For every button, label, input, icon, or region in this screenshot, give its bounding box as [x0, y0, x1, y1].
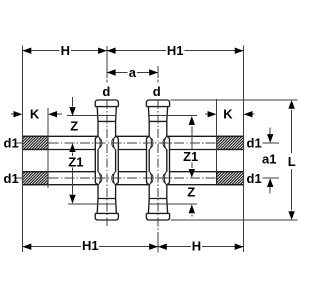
svg-text:K: K [223, 107, 233, 122]
top socket bead [146, 100, 169, 107]
K left arrows (outside) [14, 111, 23, 117]
dimension line H top [23, 50, 107, 52]
bottom socket bead [95, 213, 118, 220]
svg-text:a: a [129, 65, 137, 80]
svg-text:Z1: Z1 [68, 154, 83, 169]
stop plane extension top [67, 115, 116, 117]
cross housing barrel outline [147, 137, 150, 185]
svg-text:H: H [192, 239, 201, 254]
walls above pipe1 [149, 121, 167, 136]
svg-text:d1: d1 [4, 135, 19, 150]
extension line right face [243, 46, 245, 252]
top socket shoulder line [149, 120, 167, 122]
Z right bottom up arrow [189, 204, 195, 213]
bottom socket taper walls [148, 199, 167, 214]
walls below pipe2 [149, 185, 167, 199]
svg-text:a1: a1 [262, 151, 276, 166]
inserted pipe hatch, pipe2 left [10, 172, 59, 185]
Z/Z1 right column line [191, 126, 193, 216]
K right dim tails [205, 113, 255, 115]
walls above pipe1 [98, 121, 116, 136]
top socket shoulder line [98, 120, 116, 122]
svg-text:d1: d1 [247, 171, 262, 186]
vertical centerline pipe 2 [157, 66, 159, 78]
L reference lines [171, 100, 298, 220]
svg-text:H1: H1 [82, 238, 99, 253]
extension line K left inner [47, 108, 49, 188]
horizontal axis pipe 2 [16, 177, 23, 179]
svg-text:H1: H1 [167, 43, 184, 58]
Z1 left bottom down arrow [69, 195, 75, 204]
svg-text:d1: d1 [247, 135, 262, 150]
svg-text:d: d [102, 84, 110, 99]
svg-text:d: d [153, 84, 161, 99]
svg-text:H: H [61, 43, 70, 58]
svg-text:Z: Z [70, 118, 78, 133]
dimension line H1 top [107, 50, 244, 52]
Z1 right down arrow at axis2 [189, 169, 195, 178]
vertical pipe 1 body (cx=106.8) [95, 100, 118, 220]
inserted pipe hatch, pipe1 right [203, 136, 255, 149]
top socket taper walls [97, 107, 116, 122]
bottom socket shoulder line [98, 198, 116, 200]
svg-text:d1: d1 [4, 171, 19, 186]
Z left / Z1 left up arrow [69, 143, 75, 152]
K left dim tails [11, 113, 62, 115]
Z left down arrow [69, 107, 75, 116]
horizontal pipe 1 outline [23, 136, 244, 149]
vertical pipe 2 body (cx=158.0) [146, 100, 169, 220]
L top up arrow [288, 100, 294, 109]
dimension line a [107, 72, 158, 74]
horizontal axis pipe 1 [16, 142, 23, 144]
junction 3 saddle arcs [149, 137, 167, 150]
H1 bottom arrows [23, 244, 32, 250]
a1 top down arrow [267, 134, 273, 143]
extension line left face [22, 46, 24, 252]
bottom socket taper walls [97, 199, 116, 214]
neck lines between pipes [149, 149, 167, 172]
junction 1 saddle arcs [98, 137, 116, 150]
top socket taper walls [148, 107, 167, 122]
dimension line H bottom [158, 246, 244, 248]
H bottom arrows [158, 244, 167, 250]
junction 2 saddle arcs [98, 172, 116, 185]
K right arrows (outside) [208, 111, 217, 117]
junction 4 saddle arcs [149, 172, 167, 185]
H1 top arrows [107, 48, 116, 54]
cross housing barrel outline [95, 137, 98, 185]
H top arrows [23, 48, 32, 54]
Z/Z1 left column line [72, 97, 74, 194]
a1 column [269, 128, 271, 194]
bottom socket bead [146, 213, 169, 220]
stop plane extension bottom [68, 203, 116, 205]
inserted pipe hatch, pipe2 right [204, 172, 256, 185]
bottom socket shoulder line [149, 198, 167, 200]
inserted pipe hatch, pipe1 left [9, 136, 59, 149]
a1 bottom up arrow [267, 178, 273, 187]
svg-text:L: L [288, 154, 296, 169]
horizontal pipe 2 outline [23, 172, 244, 185]
svg-text:Z1: Z1 [183, 149, 198, 164]
svg-text:Z: Z [187, 185, 195, 200]
L bottom down arrow [288, 211, 294, 220]
a arrows [107, 69, 116, 75]
extension line K right inner [216, 99, 218, 172]
dimension line H1 bottom [23, 246, 159, 248]
vertical centerline pipe 1 [106, 46, 108, 78]
top socket bead [95, 100, 118, 107]
walls below pipe2 [98, 185, 116, 199]
neck lines between pipes [98, 149, 116, 172]
L dimension line [291, 110, 293, 210]
a1 reference stubs [263, 143, 279, 178]
Z1 right top up arrow [189, 116, 195, 125]
svg-text:K: K [30, 107, 40, 122]
